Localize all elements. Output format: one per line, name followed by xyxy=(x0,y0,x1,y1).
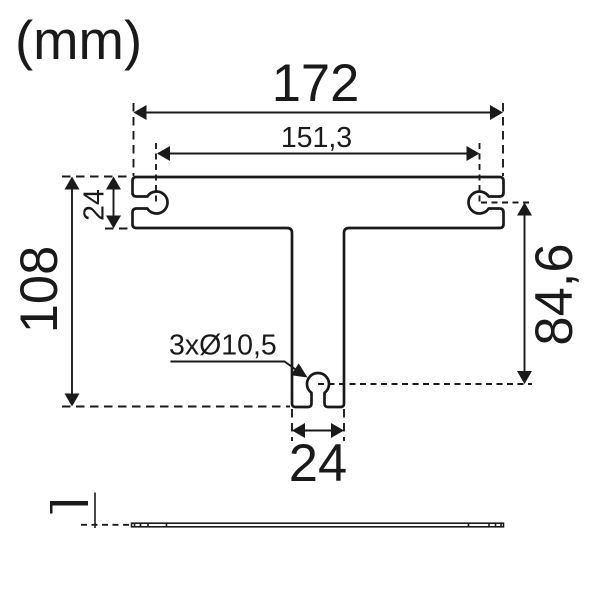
dimension 24 left: top arrowhead xyxy=(106,177,121,190)
svg-text:(mm): (mm) xyxy=(15,10,142,71)
dimension 24 bottom: extension dashed right xyxy=(343,409,345,441)
side view: extension line vertical xyxy=(94,493,96,529)
dimension 151,3: dimension line xyxy=(158,153,478,155)
dimension 151,3: right arrowhead xyxy=(467,146,480,161)
dimension 84,6: dashed centerline bottom hole horizontal xyxy=(318,383,532,385)
dimension 84,6: bottom arrowhead xyxy=(517,371,532,384)
dimension 172: dimension line xyxy=(135,112,501,114)
svg-text:151,3: 151,3 xyxy=(281,122,352,154)
dimension 172: extension line left xyxy=(133,103,135,176)
svg-text:24: 24 xyxy=(78,189,110,221)
side view: dashed centerline left xyxy=(81,524,131,526)
side view: thickness label 1 (rotated digit) xyxy=(50,501,88,514)
dimension 108: extension dashed top xyxy=(62,176,131,178)
svg-text:172: 172 xyxy=(272,54,360,113)
svg-text:3xØ10,5: 3xØ10,5 xyxy=(169,330,277,362)
dimension 151,3: extension centerline left hole xyxy=(155,143,157,206)
dimension 24 bottom: right arrowhead xyxy=(331,423,344,438)
dimension 172: left arrowhead xyxy=(134,105,147,120)
dimension 24 left: bottom arrowhead xyxy=(106,216,121,229)
dimension 84,6: dimension line xyxy=(524,204,526,383)
dimension 24 bottom: extension dashed left xyxy=(291,409,293,441)
dimension 108: dimension line xyxy=(71,178,73,405)
dimension 172: right arrowhead xyxy=(490,105,503,120)
dimension 172: extension line right xyxy=(502,103,504,176)
side view: slot tick marks left xyxy=(135,523,167,527)
dimension 108: top arrowhead xyxy=(65,177,80,190)
hole callout: leader line xyxy=(171,362,298,371)
side view: slot tick marks right xyxy=(469,523,502,527)
svg-text:84,6: 84,6 xyxy=(525,243,584,345)
dimension 84,6: dashed centerline right hole horizontal xyxy=(481,202,532,204)
svg-text:24: 24 xyxy=(289,434,347,493)
dimension 84,6: top arrowhead xyxy=(517,203,532,216)
dimension 108: bottom arrowhead xyxy=(65,394,80,407)
dimension 108: extension dashed bottom xyxy=(62,406,290,408)
dimension 24 bottom: left arrowhead xyxy=(292,423,305,438)
T-profile outline xyxy=(133,177,504,407)
dimension 24 bottom: dimension line xyxy=(294,430,343,432)
dimension 151,3: left arrowhead xyxy=(157,146,170,161)
svg-text:108: 108 xyxy=(10,246,69,334)
dimension 24 left: dimension line xyxy=(113,178,115,227)
dimension 151,3: extension centerline right hole xyxy=(479,143,481,206)
side view: thin profile outline xyxy=(132,523,504,527)
dimension 24 left: extension dashed bottom xyxy=(105,228,131,230)
hole callout: leader arrowhead xyxy=(291,363,307,377)
